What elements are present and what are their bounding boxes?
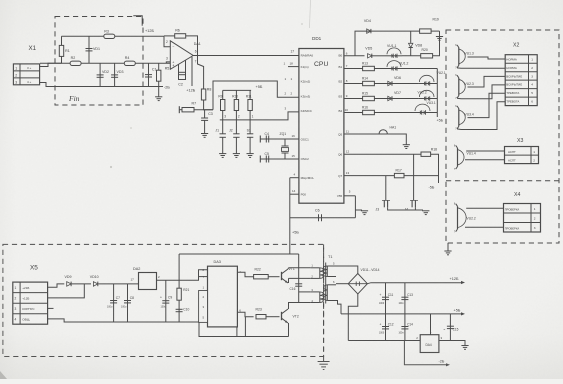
wire J1 bottom <box>222 137 224 153</box>
wire VU1.4 c to X3.1 <box>466 150 504 152</box>
wire R22 to VT1 <box>268 276 279 278</box>
resistor R13 <box>363 66 375 70</box>
wire X5.4 common <box>48 319 199 322</box>
DA3 pin numbers <box>203 268 205 320</box>
resistor R5 <box>157 67 170 82</box>
optocoupler VU2.1 label <box>437 71 446 75</box>
wire row B6 <box>344 153 421 155</box>
wire VT1 emitter to tap <box>288 278 290 283</box>
resistor R4 <box>124 56 135 66</box>
wire row B3 <box>344 98 363 100</box>
DA3 pin+ label <box>239 270 241 274</box>
wire prim tap3 <box>299 291 311 293</box>
microcontroller DD1 (CPU) <box>299 36 344 203</box>
capacitor C12 <box>382 327 389 329</box>
resistor R11 label <box>246 94 252 98</box>
connector X5 <box>13 282 48 324</box>
wire VU1.3 e to X2.2 <box>457 67 505 69</box>
wire DA2 out <box>157 279 180 281</box>
connector X3 label <box>517 138 523 144</box>
resistor R18 label <box>431 147 437 151</box>
wire Vss ground stub <box>355 209 362 211</box>
resistor R18 <box>421 152 431 156</box>
pin 17 label <box>291 49 295 53</box>
capacitor C10a label <box>183 308 189 312</box>
pin 11 label <box>346 130 349 134</box>
wire bridge bottom to common <box>348 294 358 341</box>
capacitor C7 <box>110 301 117 303</box>
power +12B arrow <box>450 277 466 284</box>
pin 8 label <box>346 79 348 83</box>
ground J1 <box>219 154 226 158</box>
ground R5 <box>155 97 162 101</box>
wire DA4 pin1 <box>430 314 432 335</box>
resistor R9 <box>221 100 225 111</box>
wire C8 branch <box>127 284 129 322</box>
ground top rail <box>436 37 443 41</box>
pin 18 stub K1 <box>284 62 299 67</box>
capacitor C8 label <box>121 296 134 309</box>
jumper J3 <box>376 200 391 211</box>
resistor R8 <box>201 88 211 101</box>
capacitor C13 <box>401 297 408 299</box>
wire VU2.2 e to X4.3 <box>465 226 504 228</box>
pin 14 Vdd stub <box>290 189 299 194</box>
power -2B arrow <box>439 360 451 367</box>
wire C11 branch <box>385 283 387 314</box>
wire OSC2 <box>260 158 299 160</box>
resistor R3 <box>104 29 115 38</box>
power +5B label LED rail <box>437 119 444 123</box>
transistor VT2 <box>282 309 289 323</box>
transistor VT1 label <box>289 267 295 271</box>
wire R7 to node <box>194 109 213 111</box>
wire +5B rail <box>341 313 461 315</box>
resistor R13 label <box>362 62 368 66</box>
wire main signal <box>40 62 170 64</box>
terminal R7 input <box>179 106 181 113</box>
diode VD8 <box>409 43 423 47</box>
wire VT2 emitter down <box>288 323 290 337</box>
wire S1 top <box>249 120 251 134</box>
power +12B label opamp <box>186 88 195 92</box>
wire 0V bus <box>348 340 420 342</box>
wire J4 riser <box>413 154 415 200</box>
dashed divider X3/X4 <box>446 180 559 182</box>
wire R10 bottom <box>235 111 237 120</box>
optocoupler VU2.3 label <box>465 82 474 86</box>
wire C3 branch <box>204 110 206 118</box>
optocoupler VU1.4 label <box>467 152 476 156</box>
wire top diode rail <box>355 31 420 56</box>
ground DA4 <box>461 346 468 350</box>
wire J1 top <box>222 120 224 134</box>
ground Vss <box>361 211 368 215</box>
diode VD6 <box>388 76 401 86</box>
wire VU1.3 c to X2.1 <box>468 57 506 59</box>
wire C2 loop <box>179 60 186 79</box>
capacitor C15 <box>447 326 454 328</box>
wire VD1 branch <box>88 36 90 63</box>
wire inverting input <box>164 36 170 47</box>
optocoupler VU3.4 output <box>455 105 465 131</box>
wire R17 to join <box>404 175 439 177</box>
wire top rail <box>62 35 165 37</box>
wire DA2out to DA3 <box>179 270 207 281</box>
capacitor C8 <box>124 301 131 303</box>
optocoupler VU3.1 label <box>427 101 436 105</box>
wire DA4 pin3 <box>439 341 465 346</box>
wire -2B line <box>404 341 446 365</box>
wire R1 branch <box>61 36 63 63</box>
wire X1 pin1 to filter input <box>40 63 62 66</box>
wire X1 pin3 to filter bottom rail <box>40 83 62 87</box>
capacitor C6 label <box>315 209 320 213</box>
wire R11 top <box>249 90 251 99</box>
connector X4 label <box>514 192 520 198</box>
capacitor C4 <box>266 136 268 143</box>
pin 9 label <box>346 94 348 98</box>
wire VU3.4 e to X2.6 <box>457 102 505 130</box>
resistor R23 <box>256 315 266 319</box>
power -2B label <box>164 85 170 89</box>
power +5B arrow <box>454 308 466 315</box>
wire Vdd to +5B <box>289 178 291 254</box>
wire DA3 block bottom <box>209 327 237 337</box>
optocoupler VU1.2 LED <box>386 61 402 71</box>
voltage regulator DA2 <box>131 267 161 290</box>
pin 6 label <box>346 51 348 55</box>
wire C6 run <box>290 217 356 219</box>
scan speck 2 <box>301 23 303 25</box>
pin 5 Vss stub <box>344 189 356 196</box>
chassis ground <box>318 362 330 370</box>
capacitor C11 label <box>379 293 394 305</box>
wire noninverting input <box>166 62 170 63</box>
op-amp DA1 <box>166 40 201 69</box>
connector X2 <box>505 55 537 106</box>
crystal ZQ1 <box>280 132 289 159</box>
ground J3 J4 <box>422 211 429 215</box>
wire R11 bottom <box>249 111 251 120</box>
resistor R10 label <box>232 94 238 98</box>
wire chassis gnd stem <box>323 357 325 362</box>
resistor R15 label <box>362 92 368 96</box>
resistor R2 <box>70 56 81 66</box>
transistor VT2 label <box>293 315 299 319</box>
wire C14 branch <box>404 314 406 341</box>
capacitor C15 label <box>444 328 459 332</box>
wire VU1.4 e to X3.2 <box>465 159 505 161</box>
dashed output box <box>446 30 559 243</box>
wire row B3 b <box>374 98 418 100</box>
wire J2 top <box>235 120 237 134</box>
wire row B2 b <box>374 83 418 85</box>
wire R6 to output <box>186 36 198 56</box>
power +12B label <box>145 29 154 33</box>
jumper J1 <box>215 128 226 137</box>
power +5B label mid <box>256 85 263 89</box>
wire VU3.4 c to X2.5 <box>468 93 506 117</box>
wire filter bottom rail -2B <box>62 86 164 88</box>
capacitor C14 label <box>399 323 414 335</box>
wire R10 top <box>235 90 237 99</box>
resistor R19 <box>420 29 432 33</box>
scan speck 1 <box>110 166 112 168</box>
pin number 2 <box>238 114 240 118</box>
wire R8 to R7 node <box>204 100 213 110</box>
wire R23 to VT2 <box>266 316 280 318</box>
resistor R16 label <box>362 106 368 110</box>
wire row B0 b <box>372 55 386 57</box>
connector X3 <box>505 147 539 164</box>
wire row B1 <box>344 68 363 70</box>
wire X5.1 feed <box>48 284 65 287</box>
optocoupler VU1.3 output <box>455 44 465 70</box>
wire X5.2 feed <box>48 284 85 298</box>
jumper J2 <box>229 128 240 137</box>
capacitor C1 <box>145 68 157 77</box>
pin 2 label K3 <box>285 92 293 96</box>
scan crease <box>310 0 311 28</box>
wire C3 to ground <box>204 120 206 133</box>
wire Vss down <box>354 196 356 218</box>
wire row B3 c <box>435 98 437 100</box>
resistor R23 label <box>256 308 262 312</box>
ground C3 <box>201 134 208 138</box>
wire row B5 b <box>387 134 406 145</box>
protection element VD1 <box>86 47 101 51</box>
DA3 pin block <box>199 291 208 323</box>
transformer T1 label <box>328 255 332 259</box>
capacitor C14 <box>401 327 408 329</box>
optocoupler VU2.2 label <box>418 91 427 95</box>
optocoupler VU1.3 label <box>465 52 474 56</box>
wire OSC1 <box>260 138 299 140</box>
terminal C4 <box>259 136 261 143</box>
diode VD4 <box>364 19 371 33</box>
wire R18 to join <box>431 154 439 183</box>
pin 16 label <box>292 134 296 138</box>
ground S1 <box>247 154 254 158</box>
resistor R7 <box>182 108 194 112</box>
optocoupler VU2.2 output <box>454 203 466 234</box>
wire snubber riser <box>298 254 300 303</box>
wire R19 end <box>431 30 439 32</box>
wire S1 bottom <box>249 137 251 153</box>
terminal C5 <box>259 156 261 163</box>
wire row B7 <box>344 175 395 177</box>
wire J3 riser <box>385 176 387 201</box>
transformer T1 primary <box>311 264 324 304</box>
wire VD8 riser <box>410 31 412 43</box>
optocoupler VU2.1 LED <box>418 75 435 85</box>
wire LED common rail <box>436 69 438 118</box>
wire branch pin6 down <box>244 317 246 337</box>
jumper S1 <box>247 128 254 137</box>
diode VD5 <box>365 46 372 58</box>
capacitor C3 <box>201 112 213 120</box>
resistor R22 label <box>255 267 261 271</box>
wire +5B pullup rail <box>223 89 251 91</box>
wire DA3 pin7 <box>199 276 208 278</box>
bridge rectifier VD11-VD14 <box>348 268 379 294</box>
wire node to K-rail <box>213 81 299 110</box>
connector X2 label <box>513 43 519 49</box>
resistor R22 <box>254 275 269 279</box>
wire C13 branch <box>404 283 406 314</box>
protection element VD2 <box>97 70 109 77</box>
wire to DA2 in <box>98 283 138 285</box>
dashed box Fin (input filter) <box>55 17 143 106</box>
resistor R21 label <box>183 288 189 292</box>
transformer T1 core <box>325 263 327 304</box>
wire V+ branch <box>191 57 193 86</box>
pin 13 label <box>346 171 350 175</box>
wire C1 branch <box>148 63 150 86</box>
capacitor C2 <box>179 72 186 74</box>
transformer T1 secondary <box>323 261 336 300</box>
pin number 3 <box>224 114 226 118</box>
diode VD10 <box>90 275 99 286</box>
wire DD3 rail <box>179 253 299 255</box>
wire output to R8 <box>198 56 204 90</box>
resistor R17 <box>394 173 404 177</box>
wire DA3 out1 <box>237 272 253 276</box>
capacitor C12 label <box>379 323 394 335</box>
resistor R1 <box>59 45 69 56</box>
power -5B label <box>429 186 435 190</box>
driver DA3 <box>208 260 238 327</box>
wire C9 branch <box>165 280 167 322</box>
wire row B5 <box>344 133 379 135</box>
wire VU2.3 c to X2.3 <box>468 76 506 87</box>
wire VT1 c wire <box>289 267 311 269</box>
regulator DA4 <box>416 330 442 353</box>
protection element VD3 <box>111 70 123 77</box>
wire sec top to bridge <box>336 266 358 274</box>
resistor R14 <box>363 81 375 85</box>
wire row B4 c <box>431 112 437 114</box>
wire jumper gnd stub <box>415 209 423 211</box>
resistor R15 <box>363 96 375 100</box>
ground output box <box>444 251 451 255</box>
resistor R10 <box>234 100 238 111</box>
resistor R7 label <box>192 102 197 106</box>
wire J2 bottom <box>235 137 237 153</box>
resistor R20 <box>421 54 433 58</box>
capacitor C16 label <box>290 287 296 291</box>
wire row B4 <box>344 112 363 114</box>
wire R9 bottom <box>222 111 224 120</box>
capacitor C9 <box>162 301 169 303</box>
optocoupler VU3.4 label <box>465 113 474 117</box>
wire prim tap2 <box>289 277 311 279</box>
optocoupler VU1.1 LED <box>386 44 402 58</box>
wire C7 branch <box>113 284 115 322</box>
resistor R20 label <box>422 48 428 52</box>
scan speck 3 <box>130 127 132 129</box>
pin 1 label K2 <box>285 77 293 81</box>
wire sec mid to bridge <box>336 283 348 285</box>
buzzer HA1 <box>379 126 396 134</box>
optocoupler VU2.3 output <box>455 74 465 100</box>
connector X4 <box>504 204 541 233</box>
wire row B1 c <box>402 68 437 70</box>
pin number 1 <box>252 114 254 118</box>
capacitor C4 label <box>265 132 269 136</box>
wire VT1 collector <box>287 268 290 269</box>
power +5B label Vdd <box>292 231 299 235</box>
resistor R19 label <box>433 18 439 22</box>
pin 10 label <box>345 108 349 112</box>
wire VD8 riser b <box>410 48 412 56</box>
wire row B0 <box>344 55 365 57</box>
wire box2 gnd stub <box>447 243 449 251</box>
wire +12B riser <box>133 16 142 26</box>
transistor VT1 <box>282 269 289 283</box>
capacitor C2 label <box>178 82 183 86</box>
wire row B0 c <box>402 55 421 57</box>
wire R6 feedback top <box>164 35 175 37</box>
wire VD9 to VD10 <box>72 283 91 285</box>
wire VT2 collector up <box>289 303 311 310</box>
resistor R17 label <box>396 168 402 172</box>
wire X5.3 stub <box>48 307 54 309</box>
wire DA3 out2 <box>237 312 253 316</box>
wire +12B rail <box>367 283 461 284</box>
wire row B2 <box>344 83 363 85</box>
wire VU2.2 c to X4.1 <box>466 207 503 209</box>
jumper J4 <box>405 200 419 211</box>
resistor R14 label <box>362 77 368 81</box>
connector X5 label <box>30 265 38 272</box>
capacitor C13 label <box>399 293 414 305</box>
resistor R16 <box>363 110 375 114</box>
DA3 pin6 label <box>239 308 241 312</box>
wire row B1 b <box>374 68 386 70</box>
resistor R21 <box>177 288 181 300</box>
capacitor C9 label <box>160 296 172 309</box>
capacitor C16 snubber <box>295 284 302 286</box>
ground J2 <box>233 154 240 158</box>
wire J3 J4 to ground <box>388 207 416 210</box>
capacitor C6 <box>319 214 322 221</box>
wire DD rail riser <box>178 254 180 322</box>
capacitor C7 label <box>107 296 120 309</box>
wire DA1 output to CPU RA6 <box>193 55 299 57</box>
wire R20 to gnd riser <box>433 31 440 56</box>
diode VD9 <box>65 275 72 286</box>
pin 3 label K4 <box>285 106 287 110</box>
optocoupler VU2.2 LED <box>418 90 435 100</box>
connector X1 <box>13 45 39 85</box>
dashed power box <box>3 244 324 356</box>
capacitor C5 label <box>265 152 269 156</box>
pin 12 label <box>346 150 350 154</box>
scan artifact corner <box>0 371 7 379</box>
chassis dashed line <box>323 244 325 356</box>
optocoupler VU3.1 LED <box>414 104 431 115</box>
wire R5 branch <box>158 63 160 97</box>
pin 4 MCLR stub <box>290 173 299 178</box>
resistor R11 <box>248 100 252 111</box>
wire row B4 b <box>374 112 414 114</box>
pin 15 label <box>292 154 296 158</box>
diode VD7 <box>388 91 401 101</box>
optocoupler VU2.2 out label <box>467 217 476 221</box>
wire C12 branch <box>385 314 387 341</box>
